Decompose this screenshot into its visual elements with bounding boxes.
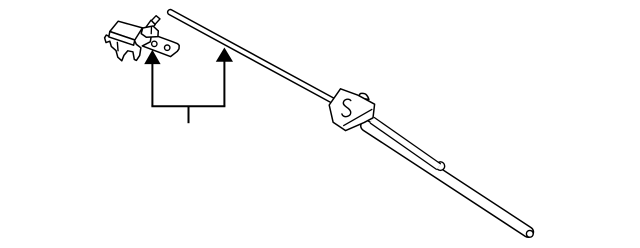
clip part: claw: [105, 35, 141, 61]
rod R1 upper-left thin rod: [170, 12, 333, 101]
clip part: tab neck: [143, 20, 155, 31]
rod R2 short upper rod: [372, 120, 439, 167]
arrow A1 (left): [144, 50, 160, 107]
clip part: plate with holes: [142, 34, 179, 57]
connector body (pentagon with S): [329, 89, 374, 131]
clip part: slab front face: [109, 32, 135, 46]
rod R3 lower long rod: [366, 126, 533, 237]
bracket connecting line: [151, 105, 225, 107]
letter S marking: [342, 99, 351, 116]
arrow A2 (right): [216, 48, 233, 107]
clip part: tab flag: [151, 16, 160, 25]
bracket tick: [188, 106, 190, 123]
rod R2 end cap bulge: [436, 162, 445, 171]
clip part: slab top face: [109, 21, 143, 45]
clip part: raised box bracket: [141, 26, 158, 37]
connector tab knob: [358, 93, 369, 99]
